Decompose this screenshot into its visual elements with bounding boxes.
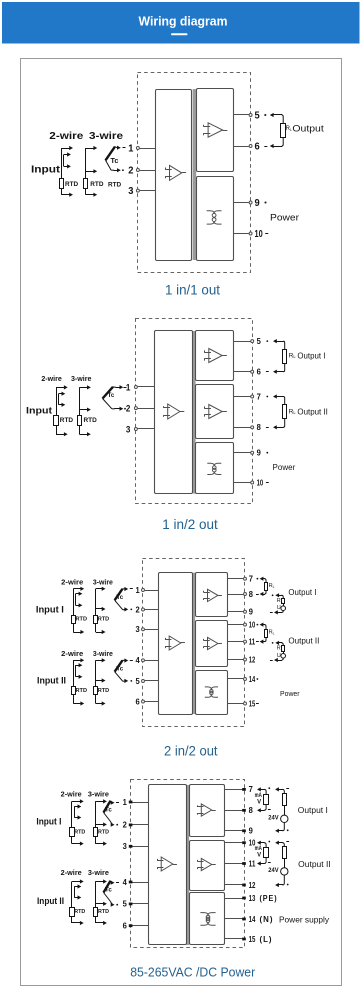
label 3-wire (D3 input I) xyxy=(93,578,113,587)
label RTD (D4 in I) (2-wire) xyxy=(74,829,85,835)
label R_L (D3 output I current) xyxy=(269,583,275,589)
terminal 10 (D2) xyxy=(251,481,254,484)
terminal 7 (D4) xyxy=(242,788,246,791)
svg-text:2 in/2 out: 2 in/2 out xyxy=(164,743,218,759)
power isolation block U4 D2 xyxy=(196,443,234,494)
transformer T1 D3 xyxy=(205,687,218,697)
load R_L (D2 output II): bottom lead xyxy=(273,419,285,429)
2-wire RTD sensor (D1): body wire xyxy=(61,148,63,195)
label R_L (D1 output) xyxy=(286,126,292,132)
terminal 9 (D2) xyxy=(251,451,254,454)
svg-text:Output I: Output I xyxy=(298,806,328,815)
3-wire RTD sensor (D4 in I): lead wire top xyxy=(95,799,107,803)
terminal 7 (D3) xyxy=(244,577,247,580)
terminal 15 (D4) xyxy=(242,938,246,941)
3-wire RTD sensor (D3 in II): lead wire middle xyxy=(96,678,106,682)
thermocouple Tc (D2): wire to - terminal xyxy=(112,407,123,411)
caption 2 in/2 out xyxy=(164,743,218,759)
power isolation block U4 D3 xyxy=(196,671,228,715)
svg-text:RTD: RTD xyxy=(74,909,85,915)
svg-text:11: 11 xyxy=(249,859,256,868)
svg-text:Input II: Input II xyxy=(37,896,64,907)
svg-text:Output I: Output I xyxy=(297,352,325,361)
pin number 8 (D4) xyxy=(249,806,254,815)
op-amp A1 D4 xyxy=(157,857,177,871)
wire U-block to terminal 8 (D4) xyxy=(225,810,244,812)
wire terminal 4 to U1 (D3) xyxy=(145,660,159,662)
terminal 5 (D1) xyxy=(249,114,252,117)
thermocouple Tc (D3 in I): wire to + terminal xyxy=(123,587,129,591)
label RTD spare (D1) xyxy=(108,182,121,189)
label Output I (D4) xyxy=(298,806,328,815)
output amplifier block U3 D4 xyxy=(190,841,225,891)
pin number 10 (D2) xyxy=(257,478,264,487)
resistor RTD (D3 in II) (3-wire) xyxy=(94,687,98,695)
terminal 8 (D3) xyxy=(244,593,247,596)
label (N) at terminal 14 xyxy=(260,915,274,924)
svg-text:(PE): (PE) xyxy=(260,894,278,903)
label RTD (D2) (3-wire) xyxy=(84,417,98,424)
wire U-block to terminal 9 (D1) xyxy=(233,202,249,204)
2-wire RTD sensor (D1): lead wire bottom xyxy=(61,193,73,197)
svg-text:6: 6 xyxy=(255,140,260,152)
svg-text:3: 3 xyxy=(126,424,131,434)
svg-text:Output I: Output I xyxy=(288,588,316,597)
label Input I (D4) xyxy=(36,817,61,828)
wire terminal 1 to U1 (D3) xyxy=(145,590,159,592)
polarity mark + (D3 in II) xyxy=(130,680,132,682)
label Input (D1) xyxy=(31,164,61,176)
svg-text:Output II: Output II xyxy=(288,637,319,646)
terminal 6 (D3) xyxy=(142,700,145,703)
pin number 12 (D4) xyxy=(249,881,256,890)
label RTD (D4 in I) (3-wire) xyxy=(98,829,109,835)
polarity - at terminal 8 (D2) xyxy=(266,427,269,429)
wire U-block to terminal 11 (D3) xyxy=(228,641,244,643)
3-wire RTD sensor (D4 in II): body wire xyxy=(95,882,97,924)
3-wire RTD sensor (D3 in I): lead wire top xyxy=(96,587,106,591)
svg-text:Input II: Input II xyxy=(37,676,66,687)
output amplifier block U2 D2 xyxy=(196,331,234,381)
terminal 2 (D4) xyxy=(129,824,133,827)
wire terminal 3 to U1 (D3) xyxy=(145,629,159,631)
thermocouple Tc (D4 in II): wire to - terminal xyxy=(111,902,115,907)
thermocouple Tc (D1): hot junction leg (thick) xyxy=(106,147,116,161)
wire U-block to terminal 10 (D3) xyxy=(228,624,244,626)
svg-text:RTD: RTD xyxy=(90,181,103,188)
svg-text:1: 1 xyxy=(136,586,141,595)
svg-text:Input: Input xyxy=(26,406,53,417)
3-wire RTD sensor (D4 in II): lead wire bottom xyxy=(95,921,107,925)
wire terminal 1 to U1 (D1) xyxy=(140,148,156,150)
svg-text:12: 12 xyxy=(249,881,256,890)
2-wire RTD sensor (D4 in II): lead wire bottom xyxy=(72,921,84,925)
wire U-block to terminal 12 (D3) xyxy=(228,659,244,661)
svg-text:2-wire: 2-wire xyxy=(61,790,82,799)
svg-text:2: 2 xyxy=(126,403,131,413)
label 3-wire (D2) xyxy=(71,374,92,383)
thermocouple Tc (D3 in II): wire to + terminal xyxy=(123,658,129,662)
label Tc (D4 in II) xyxy=(105,887,112,894)
svg-text:2-wire: 2-wire xyxy=(61,868,82,877)
polarity + at terminal 9 (D2) xyxy=(266,452,268,454)
svg-text:Output: Output xyxy=(292,124,324,135)
pin number 15 (D3) xyxy=(249,699,256,708)
wire terminal 3 to U1 (D1) xyxy=(140,190,156,192)
load mA/V meter (D4 output I) xyxy=(255,787,271,812)
thermocouple Tc (D2): hot junction leg (thick) xyxy=(103,387,114,399)
terminal 1 (D2) xyxy=(134,386,137,389)
polarity mark + (D4 in I) xyxy=(116,824,118,826)
load R_L (D1 output): top lead xyxy=(270,113,283,124)
svg-text:5: 5 xyxy=(255,109,260,121)
2-wire RTD sensor (D1): shorting jumper xyxy=(64,152,71,168)
pin number 2 (D1) xyxy=(128,164,133,176)
svg-text:RL: RL xyxy=(269,630,275,636)
wire terminal 3 to U1 (D2) xyxy=(138,428,155,430)
svg-text:6: 6 xyxy=(123,922,128,931)
output amplifier block U2 D1 xyxy=(197,89,234,172)
svg-text:Input I: Input I xyxy=(36,817,61,828)
svg-text:RTD: RTD xyxy=(76,688,88,694)
polarity + at terminal 10 (D3) xyxy=(257,624,259,626)
polarity mark + (D2) xyxy=(124,408,126,410)
2-wire RTD sensor (D4 in II): shorting jumper xyxy=(74,884,81,899)
pin number 14 (D3) xyxy=(249,675,256,684)
resistor R_L (D2 output I) xyxy=(283,350,287,364)
svg-text:RL: RL xyxy=(289,353,297,360)
2-wire RTD sensor (D2): body wire xyxy=(56,387,58,434)
transformer T1 D1 xyxy=(207,211,222,224)
terminal 5 (D2) xyxy=(251,340,254,343)
svg-text:RTD: RTD xyxy=(65,181,78,188)
svg-text:2-wire: 2-wire xyxy=(41,374,62,383)
polarity + at terminal 5 (D2) xyxy=(266,340,268,342)
3-wire RTD sensor (D2): body wire xyxy=(79,387,81,434)
resistor RTD (D2) (3-wire) xyxy=(78,416,82,426)
polarity mark - (D3 in II) xyxy=(130,660,133,662)
label Tc (D1) xyxy=(110,156,118,165)
pin number 4 (D3) xyxy=(136,656,141,665)
polarity mark - (D4 in I) xyxy=(116,802,119,804)
power isolation block U4 D4 xyxy=(190,893,225,945)
label RTD (D3 in II) (3-wire) xyxy=(98,688,110,694)
polarity - at terminal 11 (D3) xyxy=(256,641,259,643)
load R_L + voltmeter U (D3 output II voltage) xyxy=(270,641,286,662)
wire terminal 3 to U1 (D4) xyxy=(130,846,149,848)
load R_L with 24V source (D4 output I) xyxy=(268,787,289,833)
terminal 6 (D2) xyxy=(251,370,254,373)
svg-text:RTD: RTD xyxy=(84,417,98,424)
thermocouple Tc (D1): wire to + terminal xyxy=(115,146,121,150)
svg-text:mA: mA xyxy=(255,846,263,852)
resistor RTD (D1) (2-wire) xyxy=(60,179,64,189)
thermocouple Tc (D1): wire to - terminal xyxy=(111,168,121,172)
resistor RTD (D4 in I) (3-wire) xyxy=(94,828,98,837)
svg-text:7: 7 xyxy=(249,785,254,794)
svg-text:RL: RL xyxy=(289,408,297,415)
2-wire RTD sensor (D3 in II): lead wire top xyxy=(73,658,84,662)
label Power (D2) xyxy=(273,463,296,472)
load R_L (D1 output): bottom lead xyxy=(270,137,283,148)
svg-text:3-wire: 3-wire xyxy=(93,578,113,587)
svg-text:V: V xyxy=(257,853,261,859)
label Tc (D4 in I) xyxy=(105,807,112,814)
svg-text:85-265VAC /DC Power: 85-265VAC /DC Power xyxy=(130,966,255,980)
3-wire RTD sensor (D1): lead wire top xyxy=(86,146,98,150)
load R_L (D2 output II): top lead xyxy=(273,394,285,405)
svg-text:(N): (N) xyxy=(260,915,274,924)
terminal 7 (D2) xyxy=(251,395,254,398)
caption 85-265VAC /DC Power xyxy=(130,966,255,980)
pin number 5 (D4) xyxy=(123,900,128,909)
pin number 9 (D3) xyxy=(249,608,254,617)
pin number 13 (D4) xyxy=(249,894,256,903)
svg-text:RL: RL xyxy=(277,598,283,604)
svg-text:Tc: Tc xyxy=(108,392,115,399)
svg-text:10: 10 xyxy=(257,478,264,487)
svg-text:15: 15 xyxy=(249,699,256,708)
pin number 3 (D4) xyxy=(123,842,128,851)
polarity mark - (D3 in I) xyxy=(130,588,133,590)
load R_L + voltmeter U (D3 output I voltage) xyxy=(270,593,286,614)
svg-text:5: 5 xyxy=(123,900,128,909)
terminal 9 (D1) xyxy=(249,201,252,204)
pin number 5 (D2) xyxy=(257,337,262,346)
svg-text:9: 9 xyxy=(257,449,262,458)
svg-text:8: 8 xyxy=(257,423,262,432)
polarity + at terminal 9 (D1) xyxy=(264,201,266,203)
wire U-block to terminal 8 (D3) xyxy=(228,594,244,596)
terminal 2 (D2) xyxy=(134,407,137,410)
wire U-block to terminal 7 (D3) xyxy=(228,578,244,580)
terminal 14 (D4) xyxy=(242,918,246,921)
wire terminal 5 to U1 (D3) xyxy=(145,680,159,682)
transformer T1 D2 xyxy=(207,463,221,474)
polarity - at terminal 15 (D3) xyxy=(256,703,259,705)
terminal 8 (D2) xyxy=(251,426,254,429)
wire U-block to terminal 15 (D3) xyxy=(228,703,244,705)
3-wire RTD sensor (D2): lead wire bottom xyxy=(79,432,90,436)
3-wire RTD sensor (D3 in I): lead wire middle xyxy=(96,607,106,611)
label Output I (D2) xyxy=(297,352,325,361)
svg-text:U: U xyxy=(277,653,281,659)
thermocouple Tc (D4 in I): wire to + terminal xyxy=(111,801,115,805)
svg-text:4: 4 xyxy=(136,656,141,665)
wire U-block to terminal 8 (D2) xyxy=(234,427,251,429)
svg-text:1: 1 xyxy=(126,382,131,392)
svg-text:7: 7 xyxy=(249,575,254,584)
wire terminal 2 to U1 (D1) xyxy=(140,170,156,172)
load R_L (D3 output I current): bottom lead xyxy=(260,591,266,596)
3-wire RTD sensor (D3 in II): lead wire bottom xyxy=(96,701,106,705)
terminal 6 (D1) xyxy=(249,145,252,148)
svg-text:Power: Power xyxy=(273,463,296,472)
svg-text:Wiring diagram: Wiring diagram xyxy=(139,13,228,28)
svg-text:24V: 24V xyxy=(268,868,278,874)
polarity - at terminal 10 (D2) xyxy=(266,482,269,484)
3-wire RTD sensor (D4 in I): body wire xyxy=(95,801,97,843)
polarity + at terminal 14 (D3) xyxy=(257,678,259,680)
2-wire RTD sensor (D2): lead wire bottom xyxy=(56,432,68,436)
label RTD (D3 in I) (2-wire) xyxy=(76,616,88,622)
svg-text:12: 12 xyxy=(249,655,256,664)
load R_L (D2 output I): bottom lead xyxy=(273,363,285,373)
label 3-wire (D3 input II) xyxy=(93,649,113,658)
2-wire RTD sensor (D4 in I): shorting jumper xyxy=(74,804,81,819)
terminal 3 (D1) xyxy=(136,189,139,192)
wire U-block to terminal 15 (D4) xyxy=(225,938,244,940)
svg-text:1: 1 xyxy=(123,798,128,807)
wire U-block to terminal 10 (D4) xyxy=(225,842,244,844)
svg-text:mA: mA xyxy=(255,793,263,799)
resistor RTD (D1) (3-wire) xyxy=(84,179,88,189)
thermocouple Tc (D3 in I): cold leg (thin) xyxy=(115,600,123,610)
pin number 11 (D4) xyxy=(249,859,256,868)
pin number 6 (D3) xyxy=(136,697,141,706)
pin number 10 (D1) xyxy=(255,228,263,240)
polarity - at terminal 6 (D2) xyxy=(266,371,269,373)
terminal 12 (D4) xyxy=(242,884,246,887)
svg-text:(L): (L) xyxy=(260,935,273,944)
svg-text:RTD: RTD xyxy=(98,829,109,835)
terminal 14 (D3) xyxy=(244,678,247,681)
thermocouple Tc (D3 in II): cold leg (thin) xyxy=(115,672,123,682)
svg-text:RL: RL xyxy=(269,583,275,589)
polarity mark - (D2) xyxy=(124,387,127,389)
wire U-block to terminal 5 (D1) xyxy=(233,114,249,116)
thermocouple Tc (D3 in II): hot junction leg (thick) xyxy=(115,660,123,671)
terminal 9 (D4) xyxy=(242,829,246,832)
terminal 3 (D4) xyxy=(129,845,133,848)
svg-text:2-wire: 2-wire xyxy=(61,649,83,658)
svg-text:2: 2 xyxy=(128,164,133,176)
terminal 10 (D3) xyxy=(244,623,247,626)
svg-text:3-wire: 3-wire xyxy=(71,374,92,383)
svg-text:2: 2 xyxy=(136,605,141,614)
wire U-block to terminal 6 (D2) xyxy=(234,371,251,373)
op-amp A3 D3 xyxy=(204,637,222,649)
svg-text:7: 7 xyxy=(257,392,262,401)
3-wire RTD sensor (D3 in I): lead wire bottom xyxy=(96,630,106,634)
svg-text:11: 11 xyxy=(249,637,256,646)
wire terminal 5 to U1 (D4) xyxy=(130,903,149,905)
svg-text:13: 13 xyxy=(249,894,256,903)
2-wire RTD sensor (D3 in I): body wire xyxy=(73,589,75,632)
wire U-block to terminal 11 (D4) xyxy=(225,863,244,865)
pin number 3 (D1) xyxy=(128,185,133,197)
load R_L (D3 output II current): top lead xyxy=(260,623,266,630)
caption 1 in/1 out xyxy=(165,281,220,297)
label RTD (D2) (2-wire) xyxy=(60,417,74,424)
svg-text:10: 10 xyxy=(255,228,263,240)
pin number 3 (D3) xyxy=(136,625,141,634)
3-wire RTD sensor (D4 in I): lead wire bottom xyxy=(95,842,107,846)
svg-text:8: 8 xyxy=(249,806,254,815)
wire U-block to terminal 5 (D2) xyxy=(234,341,251,343)
wire terminal 2 to U1 (D4) xyxy=(130,824,149,826)
thermocouple Tc (D4 in II): hot junction leg (thick) xyxy=(104,881,111,893)
pin number 10 (D3) xyxy=(249,620,256,629)
svg-text:Power: Power xyxy=(280,689,300,698)
svg-text:9: 9 xyxy=(249,827,254,836)
3-wire RTD sensor (D3 in I): body wire xyxy=(95,589,97,632)
terminal 4 (D4) xyxy=(129,881,133,884)
2-wire RTD sensor (D3 in II): lead wire bottom xyxy=(73,701,84,705)
label (L) at terminal 15 xyxy=(260,935,273,944)
pin number 1 (D4) xyxy=(123,798,128,807)
svg-text:15: 15 xyxy=(249,935,256,944)
input converter block U1 D2 xyxy=(155,331,193,494)
pin number 1 (D2) xyxy=(126,382,131,392)
2-wire RTD sensor (D3 in I): lead wire top xyxy=(73,587,84,591)
pin number 14 (D4) xyxy=(249,915,256,924)
terminal 11 (D4) xyxy=(242,862,246,865)
terminal 11 (D3) xyxy=(244,640,247,643)
3-wire RTD sensor (D2): lead wire top xyxy=(79,385,90,389)
thermocouple Tc (D4 in II): wire to + terminal xyxy=(111,881,115,885)
label Input I (D3) xyxy=(36,605,64,616)
svg-text:Tc: Tc xyxy=(105,887,112,894)
label Output (D1) xyxy=(292,124,324,135)
svg-text:2-wire: 2-wire xyxy=(49,130,83,142)
polarity mark + (D1) xyxy=(122,169,124,171)
label Output I (D3) xyxy=(288,588,316,597)
svg-text:Input I: Input I xyxy=(36,605,64,616)
svg-text:3: 3 xyxy=(136,625,141,634)
thermocouple Tc (D4 in II): cold leg (thin) xyxy=(104,893,111,902)
pin number 8 (D3) xyxy=(249,590,254,599)
thermocouple Tc (D3 in II): wire to - terminal xyxy=(123,679,128,683)
load R_L (D3 output II current): bottom lead xyxy=(260,637,266,643)
caption 1 in/2 out xyxy=(162,516,218,532)
wire U-block to terminal 14 (D3) xyxy=(228,678,244,680)
title bar xyxy=(2,2,360,44)
3-wire RTD sensor (D1): lead wire middle xyxy=(86,169,98,173)
label Input II (D3) xyxy=(37,676,66,687)
svg-text:Tc: Tc xyxy=(116,594,123,601)
pin number 6 (D2) xyxy=(257,368,262,377)
terminal 2 (D1) xyxy=(136,169,139,172)
svg-text:14: 14 xyxy=(249,675,256,684)
thermocouple Tc (D2): wire to + terminal xyxy=(113,385,123,389)
op-amp A1 D2 xyxy=(163,404,184,419)
wire terminal 4 to U1 (D4) xyxy=(130,882,149,884)
2-wire RTD sensor (D1): lead wire top xyxy=(61,146,73,150)
op-amp A2 D1 xyxy=(203,123,227,137)
thermocouple Tc (D4 in I): wire to - terminal xyxy=(111,822,115,827)
svg-text:Tc: Tc xyxy=(105,807,112,814)
isolator module boundary (dashed) D4 xyxy=(131,780,245,948)
svg-text:9: 9 xyxy=(255,197,260,209)
3-wire RTD sensor (D4 in II): lead wire middle xyxy=(95,902,107,906)
svg-text:8: 8 xyxy=(249,590,254,599)
label Input II (D4) xyxy=(37,896,64,907)
svg-text:RL: RL xyxy=(277,646,283,652)
op-amp A3 D2 xyxy=(204,405,227,419)
barrier band D1 xyxy=(193,89,197,260)
2-wire RTD sensor (D2): shorting jumper xyxy=(59,392,66,407)
wire U-block to terminal 10 (D2) xyxy=(234,482,251,484)
isolator module boundary (dashed) D3 xyxy=(143,559,245,727)
label Output II (D2) xyxy=(297,407,328,416)
terminal 15 (D3) xyxy=(244,702,247,705)
load R_L with 24V source (D4 output II) xyxy=(268,841,289,888)
wire terminal 6 to U1 (D3) xyxy=(145,701,159,703)
pin number 2 (D2) xyxy=(126,403,131,413)
pin number 2 (D4) xyxy=(123,821,128,830)
svg-text:RTD: RTD xyxy=(98,688,110,694)
